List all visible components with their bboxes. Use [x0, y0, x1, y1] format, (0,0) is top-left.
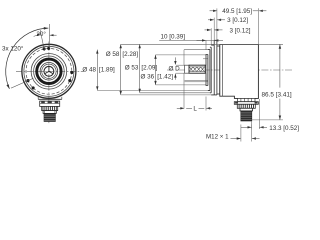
body top extension line [121, 43, 283, 45]
vertical centerline [48, 42, 50, 124]
svg-text:3 [0.12]: 3 [0.12] [227, 17, 248, 24]
collar [217, 45, 220, 47]
svg-text:Ø 36: Ø 36 [141, 74, 155, 81]
front view M12 connector flange [40, 101, 60, 106]
dia 36 extension lines [156, 54, 207, 56]
svg-text:Ø 53: Ø 53 [125, 64, 139, 71]
3x 120 deg arc [6, 28, 49, 89]
bore slit spokes [48, 67, 50, 72]
side connector step [240, 108, 253, 111]
dim 86.5 [3.41] [252, 119, 283, 121]
dia 48 callout [96, 50, 98, 91]
svg-text:3x 120°: 3x 120° [2, 45, 24, 53]
flange circle D58 [22, 44, 76, 98]
circle D36 [31, 54, 67, 90]
side connector plate [234, 102, 258, 105]
shaft knurl hatch [189, 67, 204, 72]
dia 58 callout [120, 44, 122, 95]
radial line to lower-left hole [11, 78, 33, 88]
svg-text:49.5 [1.95]: 49.5 [1.95] [222, 8, 252, 15]
svg-text:L: L [193, 106, 197, 113]
flange stack: D58 clamp flange [211, 44, 214, 46]
bolt circle D48 dashed [26, 48, 72, 94]
side connector M12 thread stud [241, 111, 252, 121]
dim 3 [0.12] upper [208, 19, 214, 21]
svg-text:[1.89]: [1.89] [99, 67, 115, 74]
dia 53 bottom extension [140, 92, 212, 94]
side view centerline [167, 69, 293, 71]
hub inner lines [185, 80, 208, 82]
dia 53 callout [139, 44, 141, 93]
side connector base spacer [238, 98, 255, 101]
dim L under shaft [205, 97, 207, 111]
body groove line [221, 44, 223, 96]
right extension vertical of 49.5 [257, 8, 259, 44]
dim 49.5 [1.95] [210, 10, 214, 12]
side connector knurl [237, 104, 255, 108]
svg-text:20°: 20° [36, 30, 46, 38]
svg-text:3 [0.12]: 3 [0.12] [230, 27, 251, 34]
shaft bore D10 [44, 66, 54, 76]
flange stack: D53 step [210, 46, 211, 48]
svg-text:86.5 [3.41]: 86.5 [3.41] [262, 92, 292, 99]
svg-text:Ø D: Ø D [169, 65, 181, 72]
dia 36 callout [155, 55, 157, 85]
inner circle 1 [40, 63, 58, 81]
shaft [185, 65, 206, 73]
extension verticals above flange [210, 28, 212, 45]
flange stack: D36 hub [206, 55, 208, 86]
20 deg dimension [48, 24, 50, 48]
dia 48 bottom extension [97, 89, 210, 91]
svg-text:[2.09]: [2.09] [141, 64, 157, 71]
ext vertical boss face [205, 40, 207, 49]
svg-text:Ø 48: Ø 48 [82, 67, 96, 74]
dim 3 [0.12] lower [205, 29, 211, 31]
dim M12 x 1 [240, 125, 242, 142]
clamp ring outer circle [34, 56, 65, 87]
svg-text:13.3 [0.52]: 13.3 [0.52] [269, 125, 299, 132]
mounting holes on bolt circle [47, 47, 50, 50]
svg-text:Ø 58: Ø 58 [106, 51, 120, 58]
housing bottom edge behind flange [38, 98, 62, 100]
svg-text:[2.28]: [2.28] [122, 51, 138, 58]
dim 10 [0.39] [159, 39, 214, 41]
inner circle 2 [42, 64, 56, 78]
thick clamp ring [37, 59, 61, 83]
boss top extension [184, 49, 210, 51]
svg-text:10 [0.39]: 10 [0.39] [161, 34, 186, 41]
dia 58 bottom extension [121, 94, 217, 96]
shaft end extension vertical [183, 50, 185, 65]
circle D53 [24, 46, 74, 96]
horizontal centerline [16, 70, 84, 72]
body [220, 44, 259, 98]
svg-text:[1.42]: [1.42] [157, 74, 173, 81]
flange stack: D48 boss [207, 55, 209, 86]
svg-text:M12 × 1: M12 × 1 [206, 133, 229, 140]
front view connector thread stud [44, 113, 55, 121]
dim D shaft diameter [176, 64, 185, 66]
torque pin on top of clamp ring [214, 39, 217, 41]
20deg arc left arrow [34, 35, 38, 36]
dim 13.3 [0.52] [251, 122, 253, 130]
shaft knurl section [189, 65, 205, 73]
front view connector knurl [42, 106, 58, 110]
front view: encoder flange face [16, 42, 84, 124]
front view connector step [43, 111, 56, 114]
